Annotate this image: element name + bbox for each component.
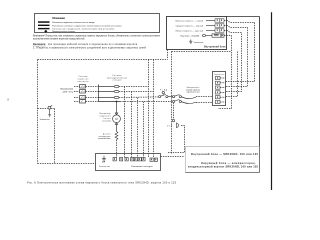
page edge line [271, 12, 273, 190]
interconnect solid line top [227, 16, 260, 18]
svg-text:Электростарт к: Электростарт к [187, 87, 200, 89]
wires breaker lines to right [119, 87, 172, 102]
ground symbol strip [102, 156, 106, 163]
contact S1 [159, 94, 168, 97]
wire sensor to strip [116, 140, 118, 158]
thermostat terminal digits [216, 77, 219, 103]
terminal oval L2 [114, 90, 119, 92]
svg-text:М: М [115, 117, 117, 121]
wire bottom edge [38, 163, 96, 165]
svg-text:Рис. 8 Электрическая монтажна: Рис. 8 Электрическая монтажная схема нар… [27, 182, 177, 185]
junction node [116, 101, 118, 103]
svg-text:220 В ~ 50 Гц: 220 В ~ 50 Гц [63, 91, 74, 93]
svg-text:Разъемные соединения, выполнен: Разъемные соединения, выполненные на зав… [52, 22, 95, 24]
strip terminal digits [114, 158, 156, 160]
svg-text:колодки: колодки [113, 80, 122, 82]
wires supply to breakers [74, 87, 99, 102]
outdoor unit dashed outline [38, 50, 168, 164]
contact S3 [173, 99, 182, 102]
wire loop 1 [224, 21, 255, 82]
svg-text:Заземление: Заземление [40, 119, 50, 121]
jumper arc lower [182, 102, 197, 104]
wire top edge [38, 59, 168, 61]
bus bar [99, 85, 121, 102]
svg-text:Промежуточные клеммы: Промежуточные клеммы [52, 31, 76, 33]
svg-text:1. Убедитесь в правильности эл: 1. Убедитесь в правильности электрически… [33, 47, 147, 50]
svg-text:Общ. белая — белый (N): Общ. белая — белый (N) [180, 34, 199, 37]
indoor ground [189, 40, 192, 44]
wire 24V to strip [161, 126, 185, 157]
svg-text:конденсаторный агрегат SRK20HD: конденсаторный агрегат SRK20HD, 100 или … [188, 165, 259, 169]
svg-text:24 В: 24 В [167, 125, 173, 127]
wire under indoor box [172, 52, 238, 154]
fan motor M1 [113, 102, 121, 132]
wire row 4 down [218, 36, 232, 109]
ground symbol left [48, 115, 51, 117]
wire loop 3 [224, 31, 242, 92]
terminal oval L3 [114, 96, 119, 98]
svg-text:Сигнальные соединения, выполня: Сигнальные соединения, выполняемые при у… [52, 29, 115, 31]
indoor unit box [167, 17, 227, 50]
legend diamond symbol [44, 30, 47, 33]
indoor terminal digits [214, 19, 223, 36]
svg-text:Клеммная колодка: Клеммная колодка [132, 166, 153, 168]
thermal sensor [115, 132, 118, 140]
svg-text:Разъемные силовые соединения,: Разъемные силовые соединения, выполняемы… [52, 25, 122, 27]
breaker F1 [80, 85, 86, 104]
wire loop 2 [224, 26, 248, 87]
svg-text:теплообменника: теплообменника [98, 138, 111, 140]
svg-text:автоматы: автоматы [78, 81, 90, 83]
interconnect solid line right [259, 17, 261, 173]
terminal strip terminals [113, 158, 158, 162]
svg-text:Термостат: Термостат [214, 74, 225, 76]
wire indoor box drop [167, 50, 169, 60]
disconnect switch [38, 105, 53, 114]
wire left edge [37, 60, 39, 164]
names box [186, 147, 260, 173]
svg-text:подключается при: подключается при [187, 92, 200, 94]
svg-text:РнВД: РнВД [160, 89, 168, 91]
svg-text:Внутренний блок — SRK20HD, 1: Внутренний блок — SRK20HD, 100 или 125 [191, 152, 259, 156]
wire thermostat stubs [220, 78, 226, 102]
svg-text:Средняя скорость — черный: Средняя скорость — черный [176, 24, 203, 27]
svg-text:выключателем питания агрегата: выключателем питания агрегата перед рабо… [33, 38, 85, 41]
svg-text:клеммам термостата: клеммам термостата [186, 89, 200, 91]
terminal oval L1 [114, 85, 119, 87]
wire drops to terminal strip [125, 60, 154, 158]
svg-text:Питание (сетевое): Питание (сетевое) [60, 88, 73, 90]
wires arcs to thermostat [196, 97, 213, 103]
legend line sample 1 [38, 21, 50, 23]
relay 24V [173, 103, 175, 120]
pressure switch РнВД [162, 91, 164, 94]
svg-text:Заземление: Заземление [194, 42, 204, 44]
svg-text:Заземление: Заземление [99, 166, 110, 168]
names box bottom edge [186, 172, 260, 174]
thermostat terminals [215, 76, 220, 103]
legend box [35, 14, 160, 33]
svg-text:Обозначения: Обозначения [52, 16, 65, 20]
svg-text:Внимание! Перед тем, как откры: Внимание! Перед тем, как открывать серви… [33, 36, 161, 38]
thermostat box [213, 72, 226, 106]
svg-text:(осевой): (осевой) [103, 119, 111, 122]
svg-text:Внимание: при прокладке кабеле: Внимание: при прокладке кабелей питания … [33, 43, 138, 46]
legend line sample 3 [38, 28, 50, 29]
svg-text:Высокая скорость — Серый: Высокая скорость — Серый [176, 19, 203, 22]
wire switch to bottom [51, 109, 55, 164]
contact S2 [168, 95, 181, 98]
jumper arc upper [182, 97, 197, 99]
terminal strip box [96, 154, 161, 171]
svg-text:Низкая скорость — красный: Низкая скорость — красный [176, 29, 203, 32]
legend line sample 2 [38, 25, 50, 26]
svg-text:Внутренний блок: Внутренний блок [204, 46, 226, 49]
svg-text:Наружный блок — компрессорно: Наружный блок — компрессорно- [201, 161, 256, 165]
wire thermostat feed 4 [226, 52, 238, 97]
